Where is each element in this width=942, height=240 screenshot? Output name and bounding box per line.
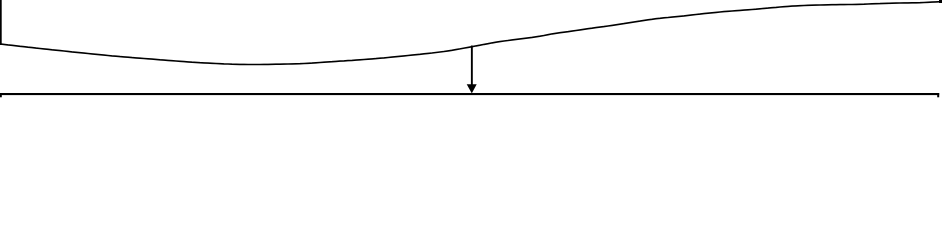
flowline arrow shaft — [471, 46, 473, 86]
process box right edge — [937, 93, 939, 97]
document shape wavy bottom edge — [0, 2, 941, 65]
process box top edge — [0, 93, 939, 95]
flowline arrowhead — [467, 84, 477, 93]
process box left edge — [0, 93, 2, 97]
document shape right edge — [939, 0, 942, 3]
document shape left edge — [0, 0, 2, 45]
